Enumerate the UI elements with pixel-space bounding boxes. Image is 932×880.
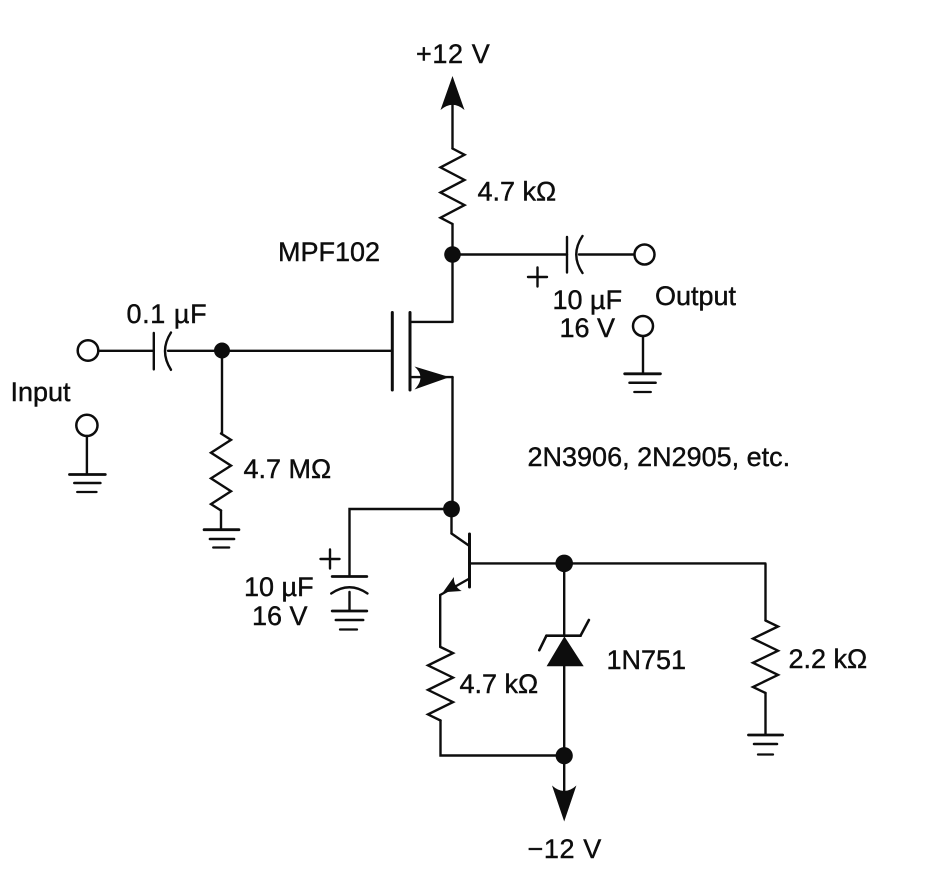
svg-text:16 V: 16 V — [560, 313, 616, 343]
svg-text:10 µF: 10 µF — [244, 572, 314, 602]
svg-text:2.2 kΩ: 2.2 kΩ — [789, 644, 868, 674]
svg-text:+12 V: +12 V — [416, 39, 490, 69]
svg-text:−12 V: −12 V — [528, 834, 602, 864]
svg-text:MPF102: MPF102 — [278, 237, 380, 267]
svg-text:4.7 MΩ: 4.7 MΩ — [244, 454, 332, 484]
svg-text:10 µF: 10 µF — [553, 285, 623, 315]
svg-text:4.7 kΩ: 4.7 kΩ — [460, 669, 539, 699]
svg-text:1N751: 1N751 — [607, 645, 687, 675]
svg-text:Output: Output — [655, 281, 737, 311]
svg-text:0.1 µF: 0.1 µF — [127, 299, 208, 329]
svg-text:2N3906, 2N2905, etc.: 2N3906, 2N2905, etc. — [528, 442, 791, 472]
svg-text:Input: Input — [11, 377, 72, 407]
svg-text:16 V: 16 V — [252, 601, 308, 631]
svg-text:4.7 kΩ: 4.7 kΩ — [478, 176, 557, 206]
